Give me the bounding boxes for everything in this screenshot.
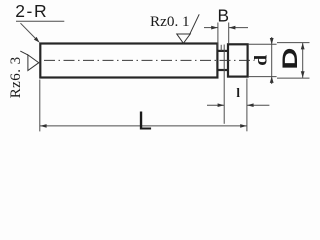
svg-text:2-R: 2-R bbox=[15, 1, 48, 21]
svg-text:B: B bbox=[218, 5, 230, 25]
svg-text:Rz6. 3: Rz6. 3 bbox=[8, 56, 24, 98]
svg-text:l: l bbox=[236, 85, 240, 100]
svg-text:Rz0. 1: Rz0. 1 bbox=[150, 13, 190, 30]
svg-text:d: d bbox=[251, 54, 271, 66]
svg-text:D: D bbox=[277, 48, 301, 70]
svg-text:L: L bbox=[138, 107, 152, 135]
